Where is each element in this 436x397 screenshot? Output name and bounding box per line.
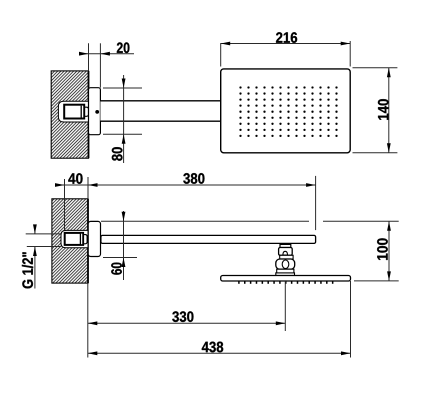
nozzle ticks under head (side view)	[238, 281, 333, 284]
dimension 80 (plate height, top view)	[103, 75, 142, 163]
inlet fitting G1/2 (side view)	[65, 233, 87, 245]
shower head (top view)	[221, 69, 351, 153]
dimension 20 (plate thickness, top view)	[79, 42, 134, 87]
dimension 330 (ball centre, side view)	[88, 281, 285, 331]
shower arm (top view)	[100, 101, 220, 121]
clearance recess in wall (side view)	[61, 230, 88, 247]
dimension 140 (head depth, top view)	[353, 68, 398, 153]
wall plate escutcheon (top view)	[89, 88, 101, 135]
dimension 100 (drop height, side view)	[354, 221, 399, 281]
clearance recess in wall (top view)	[58, 101, 88, 122]
fixing screw dot (top view)	[95, 110, 99, 114]
spray nozzle grid (top view)	[239, 86, 337, 137]
ball joint connector (side view)	[276, 244, 295, 275]
wall section (top view)	[51, 71, 88, 158]
wall plate escutcheon (side view)	[88, 221, 100, 256]
shower head slab (side view)	[221, 276, 351, 282]
dimension 40 (embedment depth, side view)	[55, 173, 88, 230]
dimension 60 (plate height, side view)	[103, 211, 137, 280]
inlet fitting G1/2 (top view)	[64, 105, 88, 119]
dimension G 1/2 (thread, side view)	[22, 224, 61, 288]
shower arm (side view)	[101, 235, 316, 243]
dimension 216 (head width, top view)	[221, 32, 351, 66]
extension line plate top to 100 dim (side view)	[101, 220, 399, 222]
dimension 380 (arm length, side view)	[88, 173, 316, 230]
wall section (side view)	[52, 199, 88, 283]
dimension 438 (overall length, side view)	[88, 281, 351, 358]
extension line wall face below (side view)	[87, 283, 89, 357]
